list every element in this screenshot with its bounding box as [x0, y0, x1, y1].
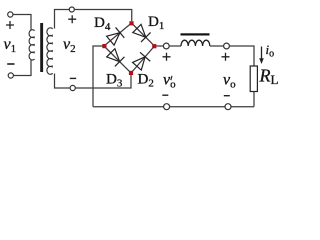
wire: secondary top to bridge top vertex [74, 10, 131, 22]
label: - (v1) [7, 63, 14, 65]
label: - (vo) [224, 95, 230, 97]
wire: load bottom [253, 92, 255, 107]
inductor L core bar [181, 33, 210, 35]
wire: bottom rail [93, 106, 254, 108]
svg-text:vo: vo [223, 72, 236, 91]
terminal: secondary bottom [70, 85, 75, 90]
wire: secondary top lead [55, 10, 70, 29]
label: + (v2) [68, 15, 76, 23]
label: + (vo) [222, 53, 230, 61]
terminal: rectifier output top [163, 43, 169, 49]
svg-text:vo: vo [163, 72, 176, 91]
terminal: primary bottom [8, 73, 13, 78]
transformer core [40, 23, 43, 72]
svg-text:v2: v2 [63, 36, 76, 55]
wire: to inductor [169, 45, 181, 47]
terminal: secondary top [69, 7, 74, 12]
node: bridge top vertex [129, 21, 133, 25]
svg-text:v1: v1 [4, 36, 17, 55]
transformer T secondary winding [47, 28, 53, 75]
svg-text:io: io [266, 42, 275, 60]
wire: bridge left vertex to bottom rail [93, 46, 104, 107]
wire: inductor to filter output terminal [210, 45, 224, 47]
label: - (v2) [70, 77, 76, 79]
terminal: bottom rail vo' [164, 104, 170, 110]
svg-text:D1: D1 [148, 14, 164, 32]
node: bridge right vertex [152, 44, 156, 48]
label: - (vo') [162, 94, 168, 96]
diode D1 [133, 24, 151, 42]
wire: secondary bottom to bridge bottom vertex [75, 75, 131, 88]
inductor L winding [181, 40, 210, 46]
svg-text:D2: D2 [138, 72, 154, 90]
terminal: bottom rail vo [225, 104, 231, 110]
wire: secondary bottom lead [55, 74, 71, 89]
wire: bridge diamond edges [104, 23, 155, 73]
current arrow io [261, 47, 263, 61]
label: + (vo') [163, 53, 171, 61]
wire: bridge right vertex to inductor [157, 45, 164, 47]
node: bridge bottom vertex [129, 71, 133, 75]
transformer T primary winding [29, 30, 35, 60]
terminal: filter output top [224, 43, 230, 49]
svg-text:D3: D3 [106, 72, 123, 90]
svg-text:RL: RL [259, 66, 279, 88]
wire: to load top corner [229, 46, 254, 66]
resistor RL body [250, 66, 257, 92]
svg-text:D4: D4 [94, 15, 111, 33]
wire: primary bottom lead [13, 60, 31, 76]
terminal: primary top [8, 12, 13, 17]
node: bridge left vertex [102, 44, 106, 48]
diode D4 [107, 27, 125, 45]
diode D3 [107, 49, 125, 67]
label: + (v1) [6, 21, 14, 29]
diode D2 [133, 52, 151, 70]
wire: primary top lead [13, 15, 31, 31]
